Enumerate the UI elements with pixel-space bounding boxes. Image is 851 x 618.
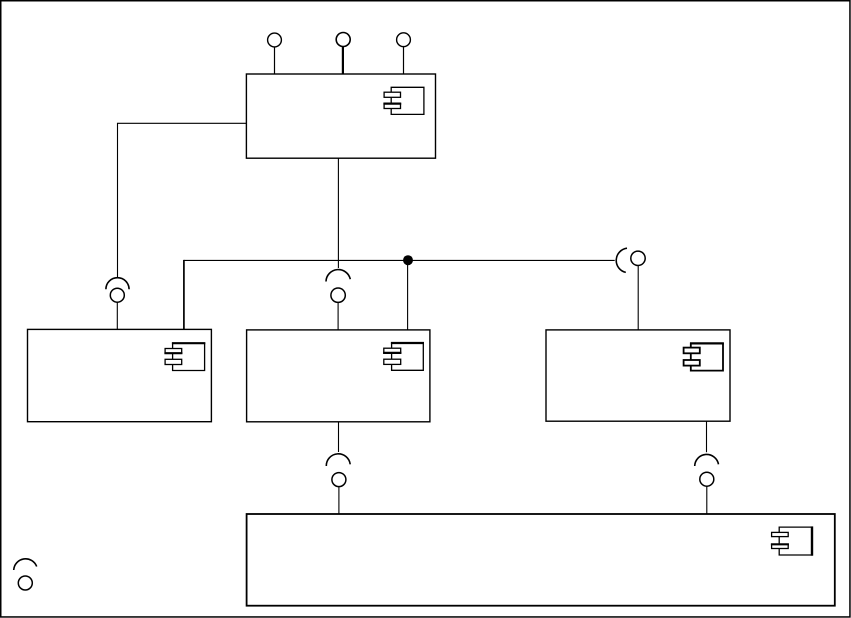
- junction dot: [403, 255, 413, 265]
- provided ball B3: [631, 251, 645, 265]
- provided ball B2: [331, 288, 345, 302]
- standalone ball B6: [18, 576, 32, 590]
- required socket S5: [695, 454, 719, 466]
- provided ball B4: [332, 473, 346, 487]
- required socket S1: [106, 278, 129, 290]
- component U4 (right): [546, 330, 730, 421]
- component icon U3: [383, 343, 424, 370]
- required socket S2: [326, 270, 350, 282]
- provided interface P3 ball: [397, 33, 411, 47]
- provided interface P2 stem (bold): [342, 47, 344, 74]
- required socket S4: [326, 454, 350, 466]
- wire junction to U3: [407, 260, 409, 330]
- provided interface P3 stem: [403, 47, 405, 74]
- component U2 (left): [28, 329, 212, 421]
- wire bus to U2 (bold drop): [183, 260, 185, 330]
- provided ball B5: [700, 472, 714, 486]
- component icon U5: [771, 526, 812, 555]
- wire B5 to component U5: [706, 486, 708, 514]
- required socket S3 (on bus, opens right): [616, 248, 627, 272]
- bus wire horizontal: [184, 259, 615, 261]
- standalone socket S6: [14, 559, 37, 570]
- wire B4 to component U5: [338, 487, 340, 514]
- wire B1 to component U2: [116, 302, 118, 329]
- wire B3 to component U4: [637, 266, 639, 330]
- component icon U1: [383, 87, 424, 114]
- provided interface P1 stem: [274, 47, 276, 74]
- provided interface P1 ball: [268, 33, 282, 47]
- component U1 (top): [246, 74, 435, 158]
- wire U3 down: [338, 422, 340, 452]
- wire U1 down: [337, 158, 339, 268]
- component icon U2: [164, 343, 205, 370]
- component U3 (middle): [247, 330, 430, 422]
- wire U1-left to socket S1: [118, 123, 247, 277]
- component icon U4: [684, 343, 724, 370]
- provided interface P2 ball: [336, 33, 350, 47]
- wire B2 to component U3: [337, 302, 339, 330]
- wire U4 down: [706, 421, 708, 452]
- component U5 (bottom): [247, 514, 835, 606]
- provided ball B1: [110, 288, 124, 302]
